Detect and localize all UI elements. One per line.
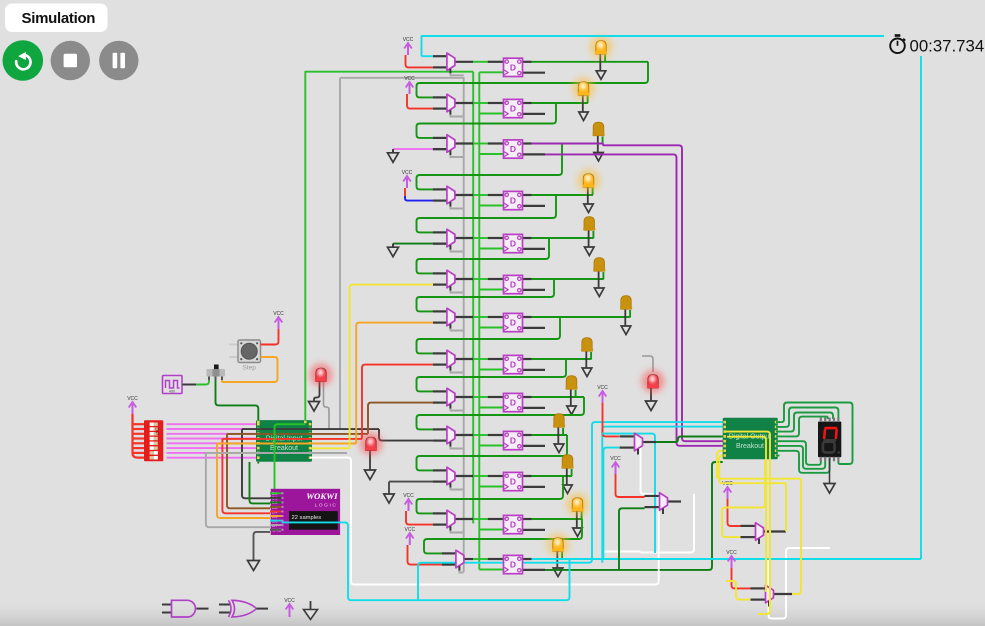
svg-text:VCC: VCC (403, 493, 414, 499)
svg-text:VCC: VCC (405, 527, 416, 533)
svg-text:D: D (510, 144, 516, 154)
svg-text:22 samples: 22 samples (292, 515, 322, 521)
svg-text:Step: Step (243, 365, 257, 372)
svg-text:DIP: DIP (155, 428, 160, 436)
svg-text:VCC: VCC (402, 170, 413, 176)
svg-text:D: D (510, 318, 516, 328)
svg-text:D: D (510, 196, 516, 206)
svg-text:Simulation: Simulation (22, 10, 96, 27)
svg-text:VCC: VCC (273, 311, 284, 317)
svg-text:WOKWI: WOKWI (306, 491, 338, 501)
svg-text:D: D (510, 436, 516, 446)
svg-text:VCC: VCC (403, 37, 414, 43)
svg-text:D: D (510, 560, 516, 570)
svg-text:D: D (510, 104, 516, 114)
svg-text:Breakout: Breakout (736, 443, 764, 450)
svg-text:00:37.734: 00:37.734 (910, 37, 985, 56)
svg-text:D: D (510, 280, 516, 290)
svg-text:VCC: VCC (726, 550, 737, 556)
svg-text:VCC: VCC (597, 385, 608, 391)
svg-text:VCC: VCC (404, 76, 415, 82)
svg-text:D: D (510, 477, 516, 487)
svg-text:LOGIC: LOGIC (315, 503, 338, 509)
svg-text:D: D (510, 520, 516, 530)
svg-text:D: D (510, 62, 516, 72)
svg-text:D: D (510, 360, 516, 370)
svg-text:VCC: VCC (610, 456, 621, 462)
svg-text:VCC: VCC (127, 396, 138, 402)
svg-text:D: D (510, 398, 516, 408)
svg-text:VCC: VCC (284, 598, 295, 604)
svg-text:D: D (510, 239, 516, 249)
svg-text:400: 400 (169, 390, 175, 394)
